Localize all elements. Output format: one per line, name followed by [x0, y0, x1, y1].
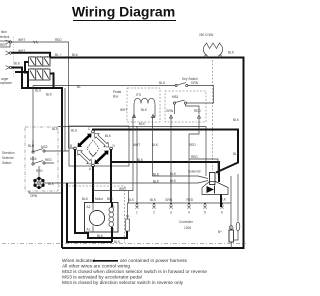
- svg-text:4: 4: [188, 211, 190, 215]
- svg-text:BLK: BLK: [153, 173, 160, 177]
- svg-text:BLK: BLK: [152, 143, 159, 147]
- svg-text:BLU: BLU: [71, 129, 78, 133]
- svg-text:BLK: BLK: [82, 197, 89, 201]
- svg-text:WHT: WHT: [18, 38, 25, 42]
- svg-text:RED: RED: [189, 143, 196, 147]
- svg-text:Controller: Controller: [179, 220, 194, 224]
- svg-text:BLK: BLK: [233, 152, 240, 156]
- svg-text:GRN: GRN: [165, 198, 173, 202]
- svg-text:250 Ω 5W: 250 Ω 5W: [199, 33, 213, 37]
- svg-text:Wiring Diagram: Wiring Diagram: [72, 4, 175, 20]
- svg-text:BLK: BLK: [128, 198, 135, 202]
- svg-text:All other wires are control wi: All other wires are control wiring: [62, 264, 130, 270]
- svg-text:Direction: Direction: [2, 151, 15, 155]
- svg-text:A1: A1: [87, 228, 91, 232]
- svg-text:are contained in power harness: are contained in power harness: [120, 258, 188, 264]
- svg-text:BLK: BLK: [14, 62, 21, 66]
- svg-text:BLK: BLK: [139, 122, 146, 126]
- svg-text:Selector: Selector: [2, 156, 15, 160]
- svg-text:BL +: BL +: [55, 53, 62, 57]
- svg-text:MS4 is closed by direction sel: MS4 is closed by direction selector swit…: [62, 280, 184, 286]
- svg-text:6: 6: [221, 211, 223, 215]
- svg-text:MS2: MS2: [41, 145, 48, 149]
- svg-text:ceptacle: ceptacle: [0, 81, 12, 85]
- svg-text:GRN: GRN: [166, 109, 174, 113]
- svg-text:BLK: BLK: [153, 180, 160, 184]
- svg-text:ORN: ORN: [30, 194, 38, 198]
- svg-text:2: 2: [153, 211, 155, 215]
- svg-text:B+: B+: [218, 230, 222, 234]
- svg-text:MS3 is activated by accelerato: MS3 is activated by accelerator pedal: [62, 275, 142, 281]
- svg-text:1: 1: [136, 211, 138, 215]
- svg-text:MS4: MS4: [30, 157, 37, 161]
- svg-text:5: 5: [204, 211, 206, 215]
- svg-text:BLK: BLK: [48, 182, 55, 186]
- svg-text:RED: RED: [55, 38, 62, 42]
- svg-text:WHT: WHT: [120, 108, 127, 112]
- svg-text:M-: M-: [126, 215, 130, 219]
- svg-text:Pedal: Pedal: [113, 90, 121, 94]
- svg-text:BLK: BLK: [150, 198, 157, 202]
- svg-text:ition: ition: [1, 30, 7, 34]
- svg-text:terlock: terlock: [0, 35, 10, 39]
- svg-text:Wires indicated: Wires indicated: [62, 258, 95, 264]
- svg-text:BLU: BLU: [159, 81, 166, 85]
- svg-text:M53: M53: [172, 95, 178, 99]
- svg-text:GRN: GRN: [191, 81, 199, 85]
- svg-text:BLK: BLK: [46, 93, 53, 97]
- svg-text:RED: RED: [191, 155, 198, 159]
- svg-text:BLK: BLK: [72, 53, 79, 57]
- svg-text:BLK: BLK: [107, 197, 114, 201]
- svg-text:Switch: Switch: [2, 161, 12, 165]
- svg-text:WHT: WHT: [133, 143, 140, 147]
- svg-text:BLU: BLU: [35, 89, 42, 93]
- svg-text:WHT: WHT: [119, 187, 126, 191]
- svg-text:BLK: BLK: [137, 158, 144, 162]
- svg-text:Solenoid: Solenoid: [188, 170, 201, 174]
- svg-text:MS2 is closed when direction s: MS2 is closed when direction selector sw…: [62, 269, 207, 275]
- svg-text:BLK: BLK: [105, 134, 112, 138]
- svg-text:BLK: BLK: [228, 51, 235, 55]
- svg-text:Box: Box: [113, 95, 119, 99]
- svg-text:3: 3: [170, 211, 172, 215]
- svg-text:RED: RED: [36, 169, 43, 173]
- svg-text:RED: RED: [194, 109, 201, 113]
- svg-text:BLK: BLK: [141, 108, 148, 112]
- svg-text:B: B: [70, 144, 72, 148]
- svg-text:RED: RED: [187, 198, 194, 202]
- svg-text:BLK: BLK: [233, 118, 240, 122]
- svg-text:1206: 1206: [184, 226, 191, 230]
- svg-text:ITS: ITS: [136, 93, 141, 97]
- svg-text:BLK: BLK: [97, 234, 104, 238]
- svg-text:BLU: BLU: [28, 144, 35, 148]
- svg-text:Motor: Motor: [95, 197, 104, 201]
- svg-text:RED: RED: [45, 158, 52, 162]
- svg-text:A2: A2: [87, 205, 91, 209]
